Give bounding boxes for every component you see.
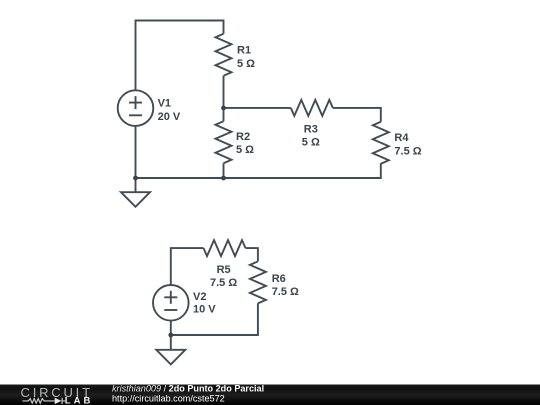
ground (circuit 2) (156, 335, 185, 364)
wire V2 bottom to ground node (170, 321, 172, 335)
label R3 value (302, 123, 320, 148)
svg-text:5 Ω: 5 Ω (236, 144, 254, 156)
svg-text:R3: R3 (304, 123, 318, 135)
voltage source V2 (153, 285, 189, 321)
svg-text:R5: R5 (217, 264, 231, 276)
resistor R4 (373, 122, 389, 164)
svg-text:V2: V2 (193, 291, 206, 303)
ground (circuit 1) (121, 178, 150, 207)
svg-text:kristhian009 / 2do Punto 2do P: kristhian009 / 2do Punto 2do Parcial (112, 383, 264, 393)
resistor R6 (250, 261, 266, 303)
wire R6 bottom to bottom rail (171, 303, 258, 335)
label R6 value (272, 273, 299, 298)
junction dot V2 ground node (168, 333, 173, 338)
label R2 value (236, 131, 254, 156)
wire R2 bottom lead (223, 163, 225, 178)
svg-text:10 V: 10 V (193, 304, 216, 316)
svg-text:R4: R4 (394, 132, 409, 144)
svg-text:5 Ω: 5 Ω (237, 58, 255, 70)
resistor R2 (216, 108, 232, 163)
CircuitLab logo schematic squiggle (resistor + diode) (23, 398, 66, 404)
node A junction dot (R1/R2/R3) (221, 106, 226, 111)
svg-text:R1: R1 (237, 45, 251, 57)
resistor R1 (216, 34, 232, 76)
svg-text:5 Ω: 5 Ω (302, 137, 320, 149)
label V1 value (158, 98, 181, 123)
svg-text:http://circuitlab.com/cste572: http://circuitlab.com/cste572 (112, 394, 225, 404)
CircuitLab logo wordmark (21, 385, 94, 405)
wire V1 bottom to ground node (135, 126, 137, 178)
label R4 value (394, 132, 421, 157)
svg-text:LAB: LAB (65, 395, 94, 405)
svg-text:R2: R2 (236, 131, 250, 143)
wire R1 bottom to node A (223, 76, 225, 108)
footer bar (0, 385, 540, 405)
wire top (V2 top to R6 top) (171, 248, 204, 285)
junction dot R2 bottom node (221, 176, 226, 181)
svg-text:20 V: 20 V (158, 111, 181, 123)
wire bottom rail (circuit 1) (136, 163, 381, 178)
wire R5 right to R6 top (246, 248, 258, 261)
wire node A to R3 left (224, 107, 291, 109)
resistor R5 (204, 240, 246, 256)
wire R3 right to R4 top (333, 108, 381, 122)
svg-text:7.5 Ω: 7.5 Ω (394, 145, 421, 157)
label R1 value (237, 45, 255, 70)
wire top (V1 top to R1 top) (136, 21, 224, 91)
svg-text:7.5 Ω: 7.5 Ω (210, 277, 237, 289)
label R5 value (210, 264, 237, 289)
resistor R3 (291, 100, 333, 116)
junction dot V1 ground node (133, 176, 138, 181)
svg-text:V1: V1 (158, 98, 171, 110)
footer title text (112, 383, 264, 403)
label V2 value (193, 291, 216, 316)
svg-text:R6: R6 (272, 273, 286, 285)
svg-text:7.5 Ω: 7.5 Ω (272, 286, 299, 298)
voltage source V1 (118, 90, 154, 126)
